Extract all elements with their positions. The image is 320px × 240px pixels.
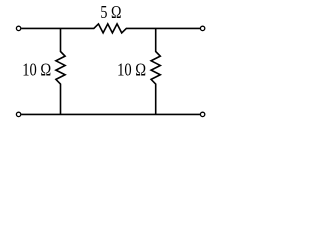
svg-text:10 Ω: 10 Ω [117,60,146,80]
svg-text:10 Ω: 10 Ω [22,60,51,80]
svg-text:5 Ω: 5 Ω [100,2,121,22]
